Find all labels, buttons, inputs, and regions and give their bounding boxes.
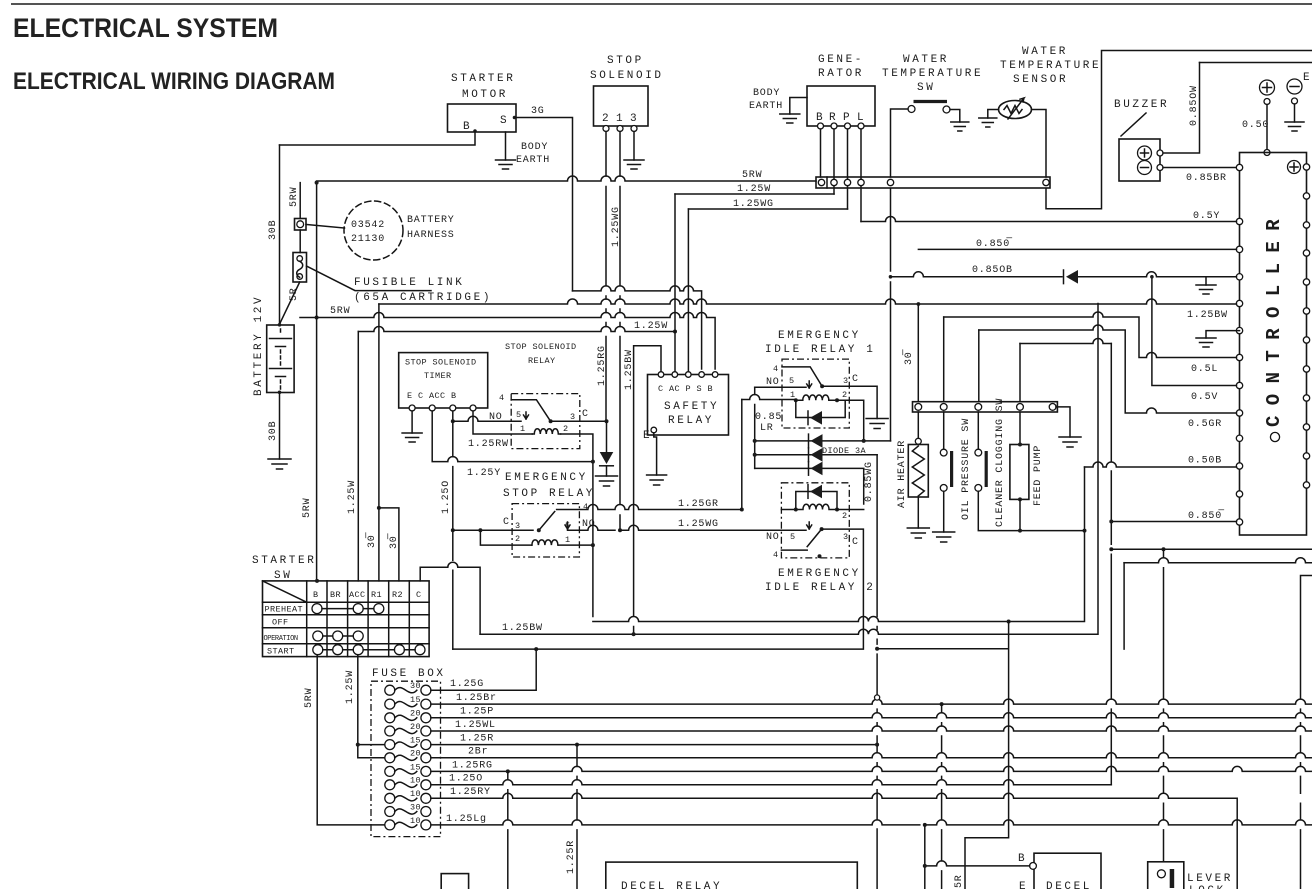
controller left terminals [1236,164,1242,525]
svg-text:4: 4 [773,364,779,374]
svg-text:0.5V: 0.5V [1191,392,1218,403]
K3 coil1 wire from left [742,395,796,400]
K5 coil [532,540,558,545]
svg-text:P: P [843,112,852,124]
wire 5RW battery vertical [299,183,301,253]
svg-text:R: R [829,112,838,124]
svg-text:STOP: STOP [607,55,644,67]
svg-text:4: 4 [499,393,505,403]
wire gen L to 0.5Y [860,129,862,222]
connector circle on vertical x877 [875,695,880,700]
svg-text:C: C [852,537,859,548]
svg-text:STOP SOLENOID: STOP SOLENOID [405,358,477,368]
K4 pin5 stub [807,522,812,529]
svg-text:C AC P S B: C AC P S B [658,384,713,394]
wire 1.25WG gen P [689,208,848,210]
diode D3 on line3 [811,462,823,476]
svg-text:DECEL RELAY: DECEL RELAY [621,881,722,889]
wire 0.85OW buzzer plus [1163,63,1200,154]
svg-text:FUSE BOX: FUSE BOX [372,668,446,680]
starter motor U-SM [448,104,517,132]
wire 1.25Lg to decel B [925,825,1030,889]
svg-text:IDLE RELAY 1: IDLE RELAY 1 [765,344,875,356]
ground battery [268,459,291,469]
wire 0.85OB with diode [889,275,893,279]
svg-text:1.25O: 1.25O [441,480,452,514]
fuse 20A row3 [385,713,395,723]
wire 5RW vertical to starter sw B [316,183,318,581]
svg-text:1.25W: 1.25W [737,184,771,195]
svg-text:2: 2 [842,511,848,521]
svg-text:5RW: 5RW [302,498,313,518]
diode 3A line 2 [755,454,877,456]
svg-text:S: S [500,115,509,127]
svg-text:1.25G: 1.25G [450,679,484,690]
wire 1.25RG row7 [431,766,1312,771]
pin 3 stop solenoid [631,126,637,132]
svg-text:4: 4 [773,550,779,560]
wire 5RW main horizontal [300,313,715,370]
pin B generator [818,123,824,129]
svg-text:B: B [463,121,472,133]
pin 2 stop solenoid [603,126,609,132]
svg-text:5: 5 [789,376,795,386]
battery BT1 [267,325,294,393]
wire AC vertical [674,194,676,372]
svg-text:E: E [643,430,652,442]
ground stop solenoid [624,160,644,169]
svg-text:1: 1 [790,390,796,400]
svg-text:STARTER: STARTER [451,73,515,85]
svg-text:1.25Lg: 1.25Lg [446,814,487,825]
relay K1 C wire to diode [551,420,607,422]
fuse 30A row10 [385,807,395,817]
svg-text:CLEANER CLOGGING SW: CLEANER CLOGGING SW [995,398,1006,527]
svg-text:0.50B: 0.50B [1188,456,1222,467]
fuse 30A row1 [385,685,395,695]
wire 0.5L step [944,312,1237,358]
wire water temp sw right to ground [950,110,960,123]
svg-text:5RW: 5RW [330,306,350,317]
pin P safety relay [686,372,692,378]
pin ACC timer [450,405,456,411]
wire step from feed pump bus [1020,339,1111,344]
operation contacts [313,631,323,641]
svg-text:2Br: 2Br [468,747,488,758]
svg-text:5: 5 [790,532,796,542]
svg-text:(65A CARTRIDGE): (65A CARTRIDGE) [354,292,492,304]
wire 1.25G/O row [453,529,864,649]
wire 1.25G row1 up to junction [431,649,536,690]
svg-text:C: C [852,374,859,385]
svg-text:EARTH: EARTH [516,155,550,166]
pin R generator [831,123,837,129]
wire fusible link to battery [279,282,299,325]
wire 0.50 to controller top [1266,105,1268,150]
svg-text:NO: NO [766,377,780,388]
preheat contacts [312,604,322,614]
wire 0.5OB row [1085,462,1237,467]
vertical 1.25R down [576,745,578,889]
svg-text:NO: NO [766,532,780,543]
svg-text:1.25BW: 1.25BW [1187,310,1228,321]
svg-text:EMERGENCY: EMERGENCY [778,330,861,342]
ground body earth starter [496,160,516,169]
svg-text:ACC: ACC [349,590,366,600]
svg-text:BODY: BODY [521,142,548,153]
svg-text:TIMER: TIMER [424,371,452,381]
svg-text:START: START [267,647,295,657]
relay K1 coil [532,429,560,434]
svg-text:FUSIBLE LINK: FUSIBLE LINK [354,277,464,289]
svg-text:1.25WG: 1.25WG [678,519,719,530]
svg-text:1.25W: 1.25W [634,321,668,332]
wire bus to feed step [1019,344,1021,402]
junction x1008 on 1.25Y row [1007,620,1011,624]
svg-text:OIL PRESSURE SW: OIL PRESSURE SW [961,418,972,520]
wire R2 branch [379,508,399,581]
vertical 0.85LR feed down to relay2 [741,400,743,510]
svg-text:E: E [1303,72,1312,84]
svg-text:03542: 03542 [351,220,385,231]
svg-text:SW: SW [917,82,935,94]
ground stub on 0.85OB near controller [1205,277,1207,285]
svg-text:1: 1 [616,113,625,125]
vertical 1.25RG down [507,771,509,889]
svg-text:0.5L: 0.5L [1191,364,1218,375]
svg-text:3: 3 [570,412,576,422]
pin S safety relay [699,372,705,378]
vertical 0.85OB to 0.5V [1152,277,1237,386]
wire 5RW starter B to fuse row11 [317,655,388,825]
svg-text:DIODE 3A: DIODE 3A [822,446,867,456]
wire 0.85O to controller [918,248,1236,250]
svg-text:1: 1 [520,424,526,434]
fuse 15A row7 [385,766,395,776]
fuse 20A row6 [385,753,395,763]
leader fusible link [307,266,432,291]
wire pin3 to ground [633,132,635,161]
wire bus to 0.5GR step [978,330,980,402]
wire P vertical 1.25WG [687,209,689,372]
svg-text:20: 20 [410,722,421,732]
wire water temp sw left down [891,109,909,271]
svg-text:C: C [416,590,422,600]
svg-text:2: 2 [842,390,848,400]
svg-text:30̅: 30̅ [387,533,400,549]
relay K1 pin4 line and arm [511,400,550,422]
decel relay box [606,862,858,889]
decel solenoid box [1034,853,1101,889]
fuse 15A row5 [385,740,395,750]
start contacts [313,645,323,655]
connector bus air heater row [913,402,1058,412]
svg-text:RELAY: RELAY [668,415,714,427]
wire gen B to bus [820,129,822,177]
wire timer E to ground [411,411,413,433]
svg-text:R1: R1 [371,590,382,600]
svg-text:4: 4 [583,502,589,512]
bus right end to ground [1056,407,1070,437]
K3 coil [796,395,837,400]
stop solenoid timer U-TMR [399,353,488,408]
svg-text:21130: 21130 [351,234,385,245]
wire 1.25W gen R [675,193,834,195]
svg-text:30B: 30B [268,220,279,240]
svg-text:15: 15 [410,695,421,705]
generator body earth wire [790,98,807,115]
wire 1.25Br row2 [431,699,1312,704]
pin L generator [858,123,864,129]
wire timer B to relay coil [473,411,532,434]
svg-text:BR: BR [330,590,341,600]
K3 pin5 stub [807,381,812,388]
long vertical from diode line2 down [876,455,878,889]
svg-text:3G: 3G [531,106,545,117]
K5 NO wire to relay2 [568,525,807,530]
svg-text:30: 30 [410,681,421,691]
svg-text:1.25W: 1.25W [347,480,358,514]
fuse 15A row2 [385,699,395,709]
pin C safety relay [658,372,664,378]
svg-text:RATOR: RATOR [818,68,864,80]
wire body earth starter motor [505,132,507,160]
svg-text:1.25BW: 1.25BW [624,349,635,390]
svg-text:EARTH: EARTH [749,101,783,112]
wire 1.25BW main to controller [379,299,1237,304]
K4 coil2 wire up to line3 [837,509,864,511]
svg-text:LR: LR [760,423,774,434]
svg-text:5RW: 5RW [742,170,762,181]
wire coil2 1.25Y vertical [561,434,593,617]
wire buzzer plus top 0.85OW [1200,62,1312,64]
wire 30B battery top [279,145,281,325]
K3 parallel diode branch [796,400,845,417]
svg-text:0.850̅: 0.850̅ [976,237,1012,250]
svg-text:0.85OW: 0.85OW [1189,85,1200,126]
svg-text:0.85: 0.85 [755,412,782,423]
svg-text:3: 3 [630,113,639,125]
small box bottom left [441,874,468,889]
K3 coil2 wire to diode line1 [837,400,864,441]
svg-text:20: 20 [410,709,421,719]
wire 1.25RG pin2 down [605,132,607,422]
wire 1.25Lg row11 [431,820,1312,825]
svg-text:30̅: 30̅ [902,349,915,365]
svg-text:1.25Y: 1.25Y [467,468,501,479]
wire gen R to bus and 1.25W [833,129,835,194]
wire 0.5Y [861,217,1237,222]
svg-text:BATTERY 12V: BATTERY 12V [253,295,265,396]
svg-text:1.25P: 1.25P [460,707,494,718]
wire 5RW top bus [317,176,816,181]
K5 coil left to C junction [480,530,532,545]
K4 switch arm [781,529,821,550]
K4 bottom dot [818,554,822,558]
svg-text:ELECTRICAL SYSTEM: ELECTRICAL SYSTEM [13,13,278,43]
pin P generator [845,123,851,129]
svg-text:0.85BR: 0.85BR [1186,173,1227,184]
K4 NO wire junction x620 [618,528,622,532]
wire 0.5GR step via bus [979,325,1237,413]
wire row to right edge y562 [1124,558,1312,563]
svg-text:SENSOR: SENSOR [1013,74,1068,86]
svg-text:AIR HEATER: AIR HEATER [897,440,908,508]
safety relay K2 [648,375,729,436]
wire 0.85BR buzzer minus [1163,167,1237,169]
svg-text:5: 5 [516,410,522,420]
diagonal header cell [263,581,307,602]
svg-text:0.850̅: 0.850̅ [1188,509,1224,522]
wire 3G horizontal to safety relay S [573,286,702,369]
svg-text:10: 10 [410,776,421,786]
svg-text:R2: R2 [392,590,403,600]
svg-text:B: B [816,112,825,124]
vertical 1.25O up [1110,344,1112,785]
svg-text:2: 2 [602,113,611,125]
K5 coil right pin1 to 1.25Y vertical [558,544,593,546]
junction x1084 cleaner rail [1083,529,1087,533]
pin C timer [429,405,435,411]
oil pressure switch S3 [943,412,945,449]
svg-text:5R: 5R [954,874,965,888]
svg-text:TEMPERATURE: TEMPERATURE [1000,60,1101,72]
generator G1 [807,86,875,126]
svg-text:LEVER: LEVER [1187,873,1233,885]
svg-text:LOCK: LOCK [1189,885,1226,889]
controller U-CTRL [1240,153,1307,536]
node B starter motor [473,129,477,133]
wire 0.85O lower row [1111,521,1236,523]
ground terminal controller y330 [1206,331,1240,338]
svg-text:OFF: OFF [272,618,289,628]
wire 1.25W vertical to starter sw ACC [357,332,359,581]
svg-text:GENE-: GENE- [818,54,864,66]
svg-text:0.5Y: 0.5Y [1193,211,1220,222]
svg-text:1.25W: 1.25W [345,670,356,704]
svg-text:5RW: 5RW [289,187,300,207]
svg-text:EMERGENCY: EMERGENCY [505,472,588,484]
vertical NO to diode lines [754,387,756,468]
svg-text:STOP SOLENOID: STOP SOLENOID [505,342,577,352]
wire safety E to ground [654,433,657,475]
svg-text:B: B [1018,853,1027,865]
svg-text:0.85WG: 0.85WG [864,461,875,502]
diode 3A line 3 [755,468,864,504]
K5 pin5 stub [565,522,570,529]
svg-text:0.5GR: 0.5GR [1188,419,1222,430]
svg-text:2: 2 [515,534,521,544]
svg-text:STARTER: STARTER [252,555,316,567]
svg-text:EMERGENCY: EMERGENCY [778,568,861,580]
svg-text:15: 15 [410,762,421,772]
K3 C wire to ground [822,386,877,418]
wire 3G from S [515,118,573,291]
stop solenoid relay K1 [511,394,580,449]
fuse 20A row4 [385,726,395,736]
controller right edge terminals [1303,164,1309,488]
K5 arm and pivot [539,505,742,531]
svg-text:MOTOR: MOTOR [462,89,508,101]
lever lock [1148,862,1184,889]
cleaner clogging switch S4 [977,412,979,449]
row lines [263,602,430,644]
junction lever lock feed [1162,547,1166,551]
svg-text:10: 10 [410,816,421,826]
svg-text:30: 30 [410,802,421,812]
svg-text:TEMPERATURE: TEMPERATURE [882,68,983,80]
pin AC safety relay [672,372,678,378]
wire sensor right loop to top [1032,51,1312,209]
svg-text:1.25WG: 1.25WG [733,199,774,210]
wire 30B battery bottom [279,392,281,459]
svg-text:5RW: 5RW [304,688,315,708]
svg-text:1.25WL: 1.25WL [455,720,496,731]
wire R1 vertical 1.25BW [378,304,380,581]
svg-text:SOLENOID: SOLENOID [590,70,664,82]
svg-text:BODY: BODY [753,88,780,99]
svg-text:1.25Br: 1.25Br [456,693,497,704]
svg-text:OPERATION: OPERATION [264,635,298,643]
svg-text:1: 1 [565,535,571,545]
svg-text:1.25RY: 1.25RY [450,787,491,798]
vertical row2 branch down [941,704,943,889]
wire 1.25P row3 [431,713,1312,718]
diode D1 on line1 [811,434,823,448]
svg-text:C: C [582,409,589,420]
svg-text:SAFETY: SAFETY [664,401,719,413]
svg-text:BUZZER: BUZZER [1114,99,1169,111]
svg-text:3: 3 [843,376,849,386]
leader harness to connector [306,225,345,229]
wire 1.25RY row9 [431,793,1237,889]
pin E timer [409,405,415,411]
svg-text:E C ACC B: E C ACC B [407,391,457,401]
fuse 10A row9 [385,793,395,803]
svg-text:NO: NO [489,412,503,423]
wire bus to 0.5L step [943,317,945,402]
wire minus to ground [1294,104,1296,122]
svg-text:0.85OB: 0.85OB [972,265,1013,276]
top rule [11,3,1312,5]
wire safety C hook to 1.25BW vertical [634,346,661,634]
svg-text:1.25RG: 1.25RG [597,345,608,386]
wire row to right edge y549 [1111,548,1312,550]
controller window circle [1270,432,1279,441]
wire 1.25Y extension row [593,467,1085,622]
K3 pin4 line and arm [782,367,822,386]
vertical from y562 line [1123,563,1125,649]
feed pump M1 [1019,412,1021,445]
svg-text:1.25RW: 1.25RW [468,439,509,450]
svg-text:B: B [313,590,319,600]
junction 0.85O on x1111 [1109,520,1113,524]
svg-text:1.25R: 1.25R [460,734,494,745]
fuse 10A row8 [385,780,395,790]
stop solenoid SS [594,86,649,126]
wire 1.25W starter ACC to fuse rows 5-6 [358,655,388,758]
svg-text:E: E [1019,881,1028,889]
air heater R-AH [917,412,919,438]
node S starter motor [513,116,517,120]
diode D2 on line2 [811,448,823,462]
diode to ground K1 [600,452,614,464]
svg-text:10: 10 [410,789,421,799]
battery harness circle 03542 21130 [344,201,403,260]
wire starter B to battery [280,131,476,145]
svg-text:HARNESS: HARNESS [407,230,455,241]
fuse 10A row11 [385,820,395,830]
